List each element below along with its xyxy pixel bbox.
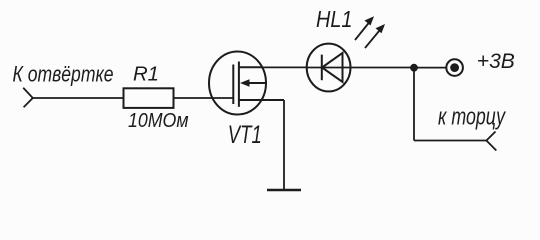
svg-text:HL1: HL1 (316, 6, 353, 32)
wire: VT1 drain to HL1 cathode (262, 66, 307, 68)
VT1 substrate arrowhead (240, 79, 250, 87)
svg-text:R1: R1 (133, 64, 159, 86)
HL1 emission arrow 2 (365, 24, 385, 48)
wire: node down (413, 68, 415, 141)
wire: VT1 source down to ground (283, 100, 285, 190)
junction node (HL1 / +3V / output) (410, 64, 418, 72)
wire: R1 right lead to VT1 gate (174, 97, 234, 99)
HL1 anode triangle (322, 53, 343, 82)
svg-text:к торцу: к торцу (438, 103, 506, 130)
wire: bottom run to connector X2 (414, 140, 486, 142)
connector X1 (probe to screwdriver) chevron (23, 88, 33, 107)
svg-text:К отвёртке: К отвёртке (13, 62, 114, 87)
HL1 emission arrow 1 (355, 16, 374, 40)
VT1 envelope circle (209, 52, 266, 115)
transistor VT1 (n-channel MOSFET) (209, 52, 284, 115)
HL1 cathode bar (321, 55, 323, 81)
wire: connector X1 to R1 left lead (33, 97, 124, 99)
VT1 drain lead (239, 66, 262, 68)
svg-text:VT1: VT1 (228, 121, 262, 149)
ground (267, 189, 301, 191)
VT1 channel bar (238, 62, 240, 107)
LED HL1 (307, 44, 415, 92)
svg-text:10МОм: 10МОм (128, 109, 189, 132)
connector X2 (to end face) chevron (486, 132, 496, 151)
VT1 gate electrode bar (232, 65, 234, 105)
wire: node to +3V terminal (414, 67, 446, 69)
VT1 source lead (239, 99, 284, 101)
terminal +3V (socket symbol) (446, 59, 463, 76)
wire through HL1 (307, 67, 415, 69)
resistor R1 (124, 88, 174, 108)
VT1 substrate lead (245, 82, 267, 84)
svg-text:+3В: +3В (477, 49, 515, 73)
HL1 envelope circle (307, 44, 351, 92)
